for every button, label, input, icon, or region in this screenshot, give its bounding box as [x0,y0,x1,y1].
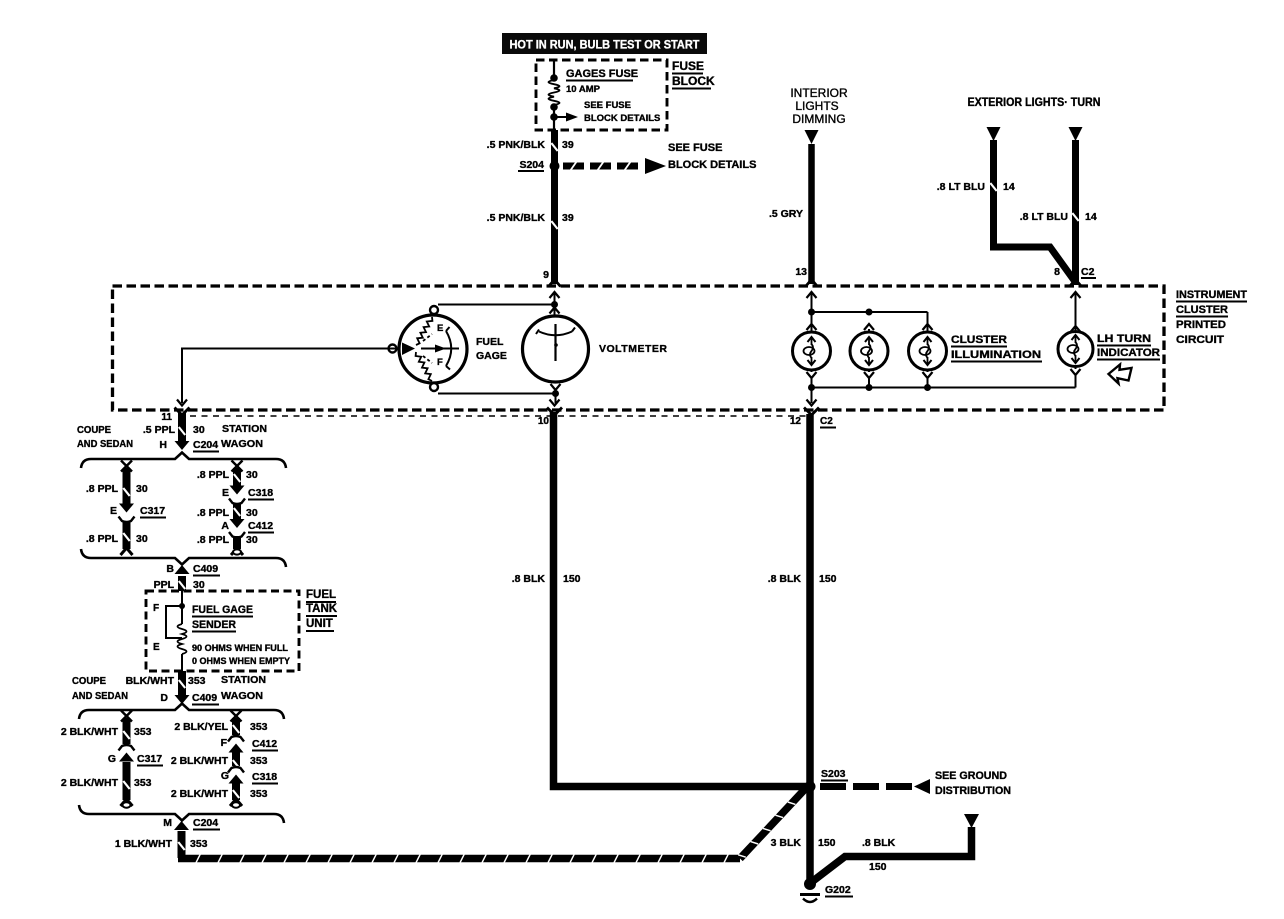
svg-text:M: M [163,817,172,829]
svg-text:BLOCK: BLOCK [672,74,715,88]
svg-text:SEE FUSE: SEE FUSE [668,142,722,154]
svg-text:C204: C204 [193,439,218,451]
svg-text:2 BLK/WHT: 2 BLK/WHT [61,777,119,789]
svg-text:.5 GRY: .5 GRY [769,208,803,220]
svg-text:DIMMING: DIMMING [792,112,845,126]
svg-text:353: 353 [134,726,152,738]
svg-text:.8 PPL: .8 PPL [86,533,119,545]
svg-text:353: 353 [250,755,268,767]
svg-text:VOLTMETER: VOLTMETER [599,343,667,355]
svg-text:AND SEDAN: AND SEDAN [77,438,133,450]
svg-text:.5 PNK/BLK: .5 PNK/BLK [487,212,546,224]
svg-text:30: 30 [246,534,258,546]
svg-text:30: 30 [136,533,148,545]
svg-text:E: E [153,642,160,653]
svg-text:GAGES FUSE: GAGES FUSE [566,68,638,80]
svg-text:30: 30 [246,507,258,519]
svg-text:30: 30 [136,483,148,495]
svg-text:LIGHTS: LIGHTS [795,99,838,113]
svg-text:14: 14 [1003,181,1015,193]
svg-text:F: F [153,603,159,614]
svg-text:C412: C412 [252,738,277,750]
svg-text:COUPE: COUPE [77,424,111,436]
svg-text:FUSE: FUSE [672,59,704,73]
svg-text:C2: C2 [1081,266,1095,278]
svg-text:.8 BLK: .8 BLK [512,573,546,585]
svg-text:14: 14 [1085,211,1097,223]
svg-text:FUEL: FUEL [306,589,336,601]
svg-text:2 BLK/WHT: 2 BLK/WHT [61,726,119,738]
svg-text:2 BLK/WHT: 2 BLK/WHT [171,788,229,800]
svg-text:H: H [159,439,167,451]
svg-text:PPL: PPL [154,579,175,591]
svg-text:G202: G202 [825,884,851,896]
svg-text:C318: C318 [248,487,273,499]
svg-text:SEE FUSE: SEE FUSE [584,100,631,111]
svg-text:D: D [160,692,168,704]
svg-text:.8 PPL: .8 PPL [197,534,230,546]
svg-text:.8 PPL: .8 PPL [86,483,119,495]
svg-text:LH TURN: LH TURN [1097,333,1151,345]
svg-text:E: E [437,323,443,334]
svg-text:C2: C2 [820,416,833,427]
svg-text:39: 39 [562,212,574,224]
svg-text:A: A [221,520,229,532]
svg-text:9: 9 [543,269,549,281]
svg-text:353: 353 [250,788,268,800]
svg-text:INSTRUMENT: INSTRUMENT [1176,289,1247,301]
svg-text:13: 13 [795,266,807,278]
svg-text:WAGON: WAGON [221,690,263,702]
svg-text:353: 353 [250,721,268,733]
svg-text:CIRCUIT: CIRCUIT [1176,334,1224,346]
svg-text:2 BLK/WHT: 2 BLK/WHT [171,755,229,767]
svg-text:BLK/WHT: BLK/WHT [126,675,175,687]
svg-text:E: E [110,505,117,517]
svg-text:.8 PPL: .8 PPL [197,507,230,519]
svg-text:B: B [166,563,174,575]
svg-text:150: 150 [563,573,581,585]
svg-text:STATION: STATION [222,423,267,435]
svg-text:C409: C409 [192,692,217,704]
svg-text:C409: C409 [193,563,218,575]
svg-text:STATION: STATION [221,674,266,686]
svg-text:1 BLK/WHT: 1 BLK/WHT [115,838,173,850]
svg-text:C317: C317 [137,753,162,765]
svg-text:353: 353 [134,777,152,789]
svg-text:8: 8 [1054,266,1060,278]
svg-text:BLOCK DETAILS: BLOCK DETAILS [584,113,660,124]
svg-text:90 OHMS WHEN FULL: 90 OHMS WHEN FULL [192,643,288,653]
svg-text:INDICATOR: INDICATOR [1097,347,1160,359]
svg-text:.5 PNK/BLK: .5 PNK/BLK [487,139,546,151]
svg-text:353: 353 [188,675,206,687]
svg-text:39: 39 [562,139,574,151]
svg-text:CLUSTER: CLUSTER [1176,304,1228,316]
svg-text:FUEL GAGE: FUEL GAGE [192,604,253,616]
svg-text:.8 BLK: .8 BLK [862,837,896,849]
svg-text:10: 10 [538,416,550,427]
svg-text:FUEL: FUEL [476,336,504,348]
svg-text:G: G [108,753,116,765]
svg-text:C204: C204 [193,817,218,829]
svg-text:COUPE: COUPE [72,675,106,687]
svg-text:10 AMP: 10 AMP [566,84,601,95]
svg-text:F: F [437,357,443,368]
svg-text:PRINTED: PRINTED [1176,319,1226,331]
svg-text:C318: C318 [252,771,277,783]
svg-text:AND SEDAN: AND SEDAN [72,690,128,702]
svg-text:.5 PPL: .5 PPL [143,424,176,436]
svg-text:INTERIOR: INTERIOR [790,86,848,100]
svg-text:HOT IN RUN, BULB TEST OR START: HOT IN RUN, BULB TEST OR START [510,38,701,52]
svg-text:GAGE: GAGE [476,350,507,362]
svg-text:.8 PPL: .8 PPL [197,469,230,481]
svg-text:11: 11 [161,412,172,423]
svg-text:30: 30 [246,469,258,481]
svg-text:S204: S204 [519,159,544,171]
svg-text:12: 12 [790,416,802,427]
svg-text:3 BLK: 3 BLK [771,837,802,849]
svg-text:C317: C317 [140,505,165,517]
svg-text:EXTERIOR LIGHTS· TURN: EXTERIOR LIGHTS· TURN [968,97,1101,109]
svg-text:F: F [221,737,228,749]
svg-text:TANK: TANK [306,603,338,615]
svg-text:150: 150 [869,861,887,873]
svg-text:30: 30 [193,424,205,436]
svg-text:ILLUMINATION: ILLUMINATION [951,349,1041,361]
svg-text:C412: C412 [248,520,273,532]
svg-text:DISTRIBUTION: DISTRIBUTION [935,785,1011,797]
svg-text:CLUSTER: CLUSTER [951,334,1007,346]
svg-text:WAGON: WAGON [221,438,263,450]
svg-text:0 OHMS WHEN EMPTY: 0 OHMS WHEN EMPTY [192,656,290,666]
svg-text:2 BLK/YEL: 2 BLK/YEL [174,721,228,733]
svg-text:30: 30 [193,579,205,591]
svg-text:SEE GROUND: SEE GROUND [935,770,1007,782]
svg-text:SENDER: SENDER [192,619,236,631]
svg-text:E: E [222,487,229,499]
svg-text:.8 LT BLU: .8 LT BLU [1020,211,1068,223]
svg-text:.8 BLK: .8 BLK [768,573,802,585]
svg-text:UNIT: UNIT [306,618,333,630]
svg-text:353: 353 [190,838,208,850]
svg-text:G: G [221,770,229,782]
svg-text:150: 150 [819,573,837,585]
svg-text:150: 150 [818,837,836,849]
svg-text:BLOCK DETAILS: BLOCK DETAILS [668,159,756,171]
svg-text:.8 LT BLU: .8 LT BLU [937,181,985,193]
svg-text:S203: S203 [821,768,846,780]
